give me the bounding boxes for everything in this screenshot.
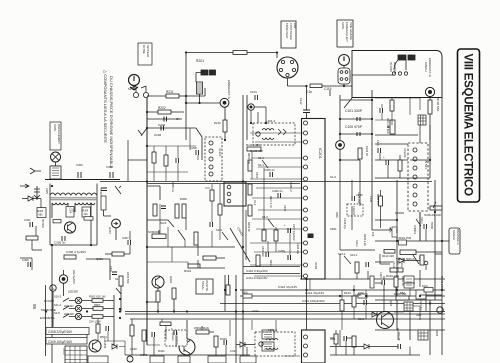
wires above L201 box bbox=[251, 107, 266, 123]
on-line resistor box bus1 bbox=[242, 292, 252, 299]
svg-text:C320: C320 bbox=[130, 347, 137, 351]
resistor R309 vertical bbox=[182, 204, 186, 218]
svg-text:S1-5: S1-5 bbox=[358, 317, 364, 321]
svg-text:C305 3n: C305 3n bbox=[54, 241, 66, 245]
pin stub circle bbox=[424, 261, 428, 270]
wires right bottom mesh bbox=[342, 285, 420, 340]
wires below transformer bbox=[52, 245, 110, 363]
ST-301 component bbox=[99, 188, 106, 210]
svg-text:330K: 330K bbox=[335, 212, 338, 218]
small boxes right bottom bbox=[404, 276, 414, 288]
svg-text:C208: C208 bbox=[190, 146, 197, 150]
wire x128 column bbox=[128, 140, 147, 181]
capacitor C122 bbox=[379, 272, 385, 285]
capacitor C317 bbox=[224, 340, 227, 345]
svg-text:CONT.TUNER: CONT.TUNER bbox=[289, 23, 293, 40]
svg-text:IN 524: IN 524 bbox=[424, 160, 428, 169]
wires mid-left lower mesh bbox=[147, 184, 220, 264]
svg-text:104: 104 bbox=[84, 213, 89, 216]
svg-text:S2: S2 bbox=[128, 87, 132, 91]
wire left drop bbox=[185, 53, 187, 141]
wires bottom band mesh bbox=[98, 279, 310, 356]
left mid column wires bbox=[147, 180, 160, 270]
resistor R913 vertical bbox=[172, 288, 176, 299]
note lamp box left bbox=[50, 122, 61, 150]
resistor R410 vertical bbox=[274, 230, 278, 241]
svg-text:R308: R308 bbox=[180, 197, 187, 201]
wire column mid verticals bbox=[252, 151, 290, 255]
LED306 bbox=[64, 312, 82, 320]
svg-text:LED306: LED306 bbox=[64, 312, 74, 316]
svg-text:C108 47µ: C108 47µ bbox=[343, 218, 346, 229]
svg-text:Q301: Q301 bbox=[96, 257, 103, 261]
svg-text:ST301: ST301 bbox=[99, 188, 103, 196]
wire row 247 bbox=[147, 246, 235, 248]
resistor box R304 bbox=[82, 207, 91, 217]
svg-text:C410 0.33µ/16V: C410 0.33µ/16V bbox=[246, 269, 268, 273]
svg-text:R110 22K: R110 22K bbox=[382, 254, 394, 258]
label box R9L bbox=[392, 227, 397, 237]
svg-text:C122: C122 bbox=[379, 272, 382, 278]
svg-text:CINCH: CINCH bbox=[424, 62, 428, 72]
resistor R320 bbox=[214, 336, 218, 347]
svg-text:R409 1K: R409 1K bbox=[247, 222, 250, 232]
wire rail y160 right bbox=[410, 159, 430, 161]
wire main top horizontal bbox=[186, 52, 278, 54]
resistor R310 bbox=[184, 264, 200, 273]
resistor R168 56K vertical bbox=[428, 98, 440, 114]
mid-right label texture bbox=[335, 196, 372, 247]
svg-text:B52: B52 bbox=[400, 291, 405, 295]
svg-text:C306 4.7µ/25V: C306 4.7µ/25V bbox=[66, 250, 86, 254]
wires right mid mesh bbox=[375, 190, 442, 264]
svg-text:R168 47K: R168 47K bbox=[376, 194, 379, 205]
svg-text:SVR101 10K: SVR101 10K bbox=[424, 213, 441, 217]
svg-text:C104: C104 bbox=[250, 90, 257, 94]
svg-text:C302: C302 bbox=[106, 165, 113, 169]
svg-text:S11-2: S11-2 bbox=[54, 303, 61, 307]
svg-text:DU CHASSIS,PIECE D'ORIGINE IND: DU CHASSIS,PIECE D'ORIGINE INDISPENSABLE bbox=[109, 76, 114, 168]
svg-text:R9 600A: R9 600A bbox=[41, 219, 44, 228]
capacitor C109 bbox=[424, 224, 427, 229]
svg-text:NIVEAU: NIVEAU bbox=[452, 230, 456, 240]
switch S2-8 bbox=[54, 311, 69, 318]
svg-text:C407 10µ/16V: C407 10µ/16V bbox=[292, 224, 296, 241]
svg-text:NOTE: NOTE bbox=[53, 124, 57, 131]
capacitor C310 left bbox=[376, 140, 381, 153]
svg-text:S1-2: S1-2 bbox=[262, 215, 268, 219]
svg-text:680: 680 bbox=[39, 214, 44, 217]
switch S2-5 bbox=[178, 230, 185, 240]
capacitor C307 bbox=[122, 236, 131, 245]
svg-text:S14-1: S14-1 bbox=[420, 217, 423, 224]
resistor R315 vertical bbox=[130, 325, 134, 336]
dashed connector box mid-left bbox=[205, 137, 222, 181]
hatch block right bbox=[418, 115, 426, 125]
small box bottom mid bbox=[150, 356, 164, 363]
svg-text:LOUD: LOUD bbox=[62, 348, 65, 355]
resistor R411 vertical bbox=[256, 255, 260, 266]
resistor R110 22K bbox=[382, 250, 395, 259]
svg-text:C101 330P: C101 330P bbox=[345, 109, 363, 113]
on-line resistor box bus2 bbox=[358, 294, 367, 298]
resistor horizontal mid bbox=[64, 255, 76, 259]
lamp symbol bbox=[51, 152, 61, 162]
switch S2-1 bbox=[138, 128, 147, 136]
IC201 inner mark bbox=[308, 234, 319, 270]
svg-text:S1-5: S1-5 bbox=[388, 227, 392, 233]
wire top bus to R211 bbox=[147, 88, 205, 96]
resistor Rm01 33K bbox=[246, 143, 261, 151]
svg-text:S13-1: S13-1 bbox=[355, 240, 358, 247]
circle small left2 bbox=[50, 285, 56, 291]
svg-text:R106 2.2K: R106 2.2K bbox=[363, 234, 366, 246]
svg-text:R411: R411 bbox=[269, 260, 272, 266]
wire pin rows middle bbox=[250, 133, 303, 276]
svg-text:C404: C404 bbox=[255, 172, 258, 179]
transistor Q201 bbox=[152, 276, 173, 288]
ground bus left bbox=[45, 179, 120, 181]
svg-text:R139: R139 bbox=[435, 330, 438, 337]
small dashed box mid bbox=[347, 204, 363, 216]
left bottom verticals bbox=[46, 270, 115, 356]
wires bottom mesh bbox=[125, 319, 255, 355]
trimmer right bottom bbox=[394, 292, 409, 300]
svg-text:S2-4: S2-4 bbox=[216, 228, 222, 232]
resistor R164 vertical bbox=[340, 300, 344, 311]
svg-text:R607: R607 bbox=[94, 303, 101, 307]
svg-text:C304: C304 bbox=[69, 208, 71, 214]
resistor R307 vertical bbox=[194, 232, 198, 245]
capacitor C112 above IC bbox=[299, 98, 310, 119]
resistor R201 bbox=[196, 51, 247, 64]
right mid vertical bus x372 bbox=[371, 90, 373, 230]
bottom small circle bbox=[127, 356, 133, 362]
svg-text:R310: R310 bbox=[184, 269, 192, 273]
NIVEAU D'ENTREE label box bbox=[449, 228, 460, 254]
note label box (right) bbox=[337, 20, 353, 47]
capacitor C316 bbox=[210, 222, 213, 227]
switch S1-4 bbox=[330, 90, 352, 108]
svg-text:C310 100µF/16V: C310 100µF/16V bbox=[302, 299, 325, 303]
title block VIII ESQUEMA ELECTRICO bbox=[458, 49, 480, 202]
resistor R407 vertical bbox=[248, 205, 252, 216]
SVR301 trimmer bbox=[148, 230, 166, 239]
DIN connector socket bbox=[277, 57, 298, 78]
svg-text:50LB: 50LB bbox=[395, 228, 397, 234]
wire bus B bbox=[240, 289, 445, 291]
svg-text:C411 0.33µ/16V: C411 0.33µ/16V bbox=[246, 276, 268, 280]
svg-text:C106: C106 bbox=[356, 193, 363, 197]
trimmer diagonal top right bbox=[115, 186, 121, 194]
wire C410 row bbox=[243, 267, 300, 274]
capacitor C308 box bbox=[46, 328, 89, 335]
svg-text:FILTRE: FILTRE bbox=[142, 45, 145, 54]
diode D303 bbox=[112, 344, 117, 349]
svg-text:R320: R320 bbox=[220, 337, 227, 341]
left small arrow component bbox=[30, 168, 41, 174]
wire bus C bbox=[240, 295, 445, 297]
wire second vertical x246 bbox=[245, 210, 247, 260]
wires bottom right extra bbox=[375, 270, 426, 320]
svg-text:+: + bbox=[284, 223, 286, 227]
wires mid-left upper mesh bbox=[147, 128, 198, 181]
svg-text:R140 27K: R140 27K bbox=[440, 276, 444, 289]
wire bus E (long pair) bbox=[125, 312, 445, 315]
on-line resistor box bus3 bbox=[422, 285, 433, 292]
resistor R607 bbox=[93, 303, 103, 310]
svg-text:+: + bbox=[383, 155, 385, 159]
capacitor C303 bbox=[76, 163, 83, 178]
diode D102 bbox=[372, 312, 377, 317]
svg-text:C310: C310 bbox=[376, 140, 379, 147]
wires bottom right bbox=[375, 295, 445, 355]
capacitor C107 bbox=[366, 262, 369, 267]
wires mid bottom extra bbox=[330, 330, 352, 355]
cinch record connector box outline bbox=[352, 51, 442, 99]
svg-text:W302 5K(A): W302 5K(A) bbox=[194, 326, 209, 330]
resistor R165 vertical bbox=[352, 296, 356, 307]
svg-text:C416 47µ/16V: C416 47µ/16V bbox=[278, 285, 297, 289]
svg-text:SECTEUR: SECTEUR bbox=[146, 45, 149, 57]
capacitor C208 bbox=[190, 146, 199, 155]
svg-text:R219: R219 bbox=[214, 121, 221, 125]
jack G301 bbox=[108, 219, 120, 234]
svg-text:S3-6: S3-6 bbox=[160, 221, 167, 225]
capacitor C101 bbox=[345, 109, 363, 121]
diode D301 bbox=[22, 196, 41, 201]
wire x340 column bbox=[340, 95, 372, 140]
svg-text:IN CRD: IN CRD bbox=[389, 62, 393, 72]
capacitor C106 bbox=[352, 192, 361, 204]
bus labels bbox=[278, 285, 325, 303]
svg-text:Rm01 33K: Rm01 33K bbox=[250, 149, 263, 153]
right area wires bbox=[375, 180, 442, 330]
IC201 pins bbox=[304, 121, 308, 278]
svg-text:C309 100µF/16V: C309 100µF/16V bbox=[48, 340, 73, 344]
speaker connector dashed box right bbox=[408, 143, 428, 211]
svg-text:324 1/2W: 324 1/2W bbox=[89, 320, 101, 324]
wire DIN drop to IC bbox=[306, 86, 308, 106]
svg-text:LED308: LED308 bbox=[68, 290, 78, 294]
svg-text:S1-2: S1-2 bbox=[253, 200, 256, 206]
VR101 pot bbox=[396, 250, 416, 261]
resistor R311 horizontal bbox=[112, 252, 124, 256]
left connector pins top bbox=[130, 86, 149, 98]
switch S1-1 bbox=[258, 156, 268, 168]
electrolytic C319 bbox=[171, 326, 177, 335]
wire into jack bbox=[340, 149, 360, 180]
svg-text:G301: G301 bbox=[108, 227, 112, 234]
wires G301 bbox=[104, 210, 117, 240]
capacitor C309a bbox=[22, 258, 31, 267]
svg-text:R131: R131 bbox=[400, 261, 403, 267]
capacitor C309 box bbox=[46, 338, 87, 345]
svg-text:+: + bbox=[171, 326, 173, 330]
bottom right small circle bbox=[437, 307, 443, 313]
resistor R103 vertical bbox=[358, 146, 369, 159]
capacitor C201 bbox=[158, 117, 167, 128]
jack circle above L201 box bbox=[248, 104, 254, 110]
capacitor C406 bbox=[272, 189, 283, 198]
volume pot right bbox=[386, 118, 395, 134]
wires mid bbox=[224, 107, 226, 140]
svg-text:C209: C209 bbox=[278, 249, 285, 253]
svg-text:C112: C112 bbox=[299, 98, 303, 105]
svg-text:VIII ESQUEMA ELECTRICO: VIII ESQUEMA ELECTRICO bbox=[462, 54, 474, 197]
bottom small box row1 bbox=[208, 356, 226, 363]
switch S2-4 bbox=[216, 228, 228, 240]
wires left column bbox=[20, 199, 42, 271]
wire NIVEAU row bbox=[375, 240, 450, 242]
resistor horizontal left of Q301 bbox=[41, 219, 61, 228]
svg-text:D'EFFACEMENT: D'EFFACEMENT bbox=[57, 124, 61, 144]
diode stack far left bbox=[34, 186, 40, 200]
diode D302 bbox=[240, 342, 245, 347]
resistor R211 bbox=[166, 90, 179, 98]
wire DIN to box bbox=[277, 53, 306, 87]
resistor R950 vertical bbox=[226, 285, 230, 295]
svg-text:S1-1: S1-1 bbox=[258, 156, 264, 160]
hatch block right bottom bbox=[404, 302, 413, 311]
svg-text:C301: C301 bbox=[24, 218, 31, 222]
coil vertical (mains) bbox=[197, 82, 203, 103]
svg-text:S13-1: S13-1 bbox=[350, 253, 358, 257]
svg-text:C308 220µF/16V: C308 220µF/16V bbox=[48, 330, 73, 334]
capacitor C301 bbox=[24, 218, 33, 227]
switch S3-6 bbox=[160, 220, 174, 227]
bottom right diode D103 bbox=[364, 344, 369, 349]
capacitor C314 bbox=[101, 188, 107, 191]
lamp leads bbox=[51, 162, 60, 166]
note label box (tuner) bbox=[281, 21, 297, 48]
svg-text:W302: W302 bbox=[140, 353, 148, 357]
resistor R306 vertical bbox=[153, 204, 157, 216]
svg-text:R503 56K: R503 56K bbox=[126, 272, 130, 284]
svg-text:C119: C119 bbox=[324, 87, 332, 91]
resistor R301 bbox=[26, 236, 38, 240]
capacitor C202 bbox=[154, 126, 164, 138]
svg-text:PRISE PEUT: PRISE PEUT bbox=[285, 23, 289, 39]
svg-text:10K: 10K bbox=[371, 232, 374, 237]
resistor box R303 bbox=[37, 208, 46, 218]
svg-text:NOTE: NOTE bbox=[341, 22, 345, 29]
dashed coil box L201 bbox=[253, 119, 295, 145]
svg-text:D'SORTIE: D'SORTIE bbox=[205, 280, 208, 291]
svg-text:A-C1815: A-C1815 bbox=[103, 338, 107, 349]
wire bus A bbox=[300, 278, 445, 280]
svg-text:VOLUM: VOLUM bbox=[403, 148, 407, 157]
svg-text:S1-1: S1-1 bbox=[258, 163, 264, 167]
svg-text:C307: C307 bbox=[122, 236, 129, 240]
wire rail y181 bbox=[100, 181, 432, 183]
resistor R605 bbox=[89, 315, 103, 324]
resistor R215 vertical bbox=[152, 152, 156, 163]
svg-text:2.2n: 2.2n bbox=[306, 90, 312, 94]
svg-text:R211: R211 bbox=[166, 90, 174, 94]
resistor W301 bbox=[203, 256, 216, 260]
capacitor C120 bbox=[364, 300, 367, 305]
wire rail y183.5 bbox=[147, 183, 300, 185]
svg-text:C321: C321 bbox=[230, 349, 237, 353]
svg-text:C406: C406 bbox=[283, 205, 286, 212]
wire into record box bbox=[322, 66, 352, 86]
resistor R406 vertical bbox=[248, 184, 252, 195]
wires bottom mid bbox=[147, 275, 307, 363]
wires upper cluster bbox=[147, 96, 220, 128]
capacitor C209 bbox=[176, 158, 179, 163]
label stack LOUD/ARU bbox=[392, 261, 403, 273]
svg-text:R103 1K: R103 1K bbox=[365, 146, 369, 156]
svg-text:C406 2n: C406 2n bbox=[272, 189, 283, 193]
resistor R405 vertical bbox=[248, 160, 252, 171]
svg-text:32Ω: 32Ω bbox=[330, 337, 335, 341]
svg-text:R407 4.7K: R407 4.7K bbox=[269, 196, 272, 208]
svg-text:S2-8: S2-8 bbox=[54, 311, 60, 315]
label box C304 bbox=[66, 207, 74, 218]
wire right column verticals bbox=[340, 160, 397, 250]
svg-text:HON2: HON2 bbox=[430, 222, 433, 230]
note label box top-left bbox=[138, 43, 152, 65]
svg-text:VOIE GAUCHE: VOIE GAUCHE bbox=[349, 22, 353, 40]
svg-text:LED307: LED307 bbox=[64, 304, 74, 308]
resistor near C119 bbox=[306, 84, 332, 94]
bottom small box row3 bbox=[88, 356, 108, 363]
capacitor block below power symbol bbox=[338, 68, 350, 84]
resistor R409 vertical bbox=[262, 230, 266, 241]
svg-text:ENREGIS.(LECT: ENREGIS.(LECT bbox=[345, 22, 349, 42]
cinch connector internals bbox=[389, 55, 432, 78]
svg-text:R164: R164 bbox=[344, 291, 351, 295]
transformer T301 bbox=[45, 184, 97, 246]
svg-text:330K: 330K bbox=[330, 227, 337, 231]
svg-text:CREDIT: CREDIT bbox=[352, 206, 355, 215]
LED308 bbox=[68, 290, 82, 304]
svg-text:R405 10K: R405 10K bbox=[247, 153, 250, 164]
transistor Q301 bbox=[64, 222, 75, 233]
svg-text:C310: C310 bbox=[109, 266, 112, 273]
switch matrix box bottom left bbox=[62, 346, 87, 363]
svg-text:△ COMPOSANTS LIES A LA SECURIT: △ COMPOSANTS LIES A LA SECURITE bbox=[103, 70, 108, 143]
resistor horizontal right of Q301 bbox=[84, 217, 93, 220]
cinch diagonal label bbox=[230, 227, 250, 263]
svg-text:AUX: AUX bbox=[293, 23, 297, 29]
node jack circle right bbox=[425, 87, 434, 96]
switch S1-3 right of leds bbox=[115, 277, 121, 294]
middle column rotated label texture bbox=[247, 153, 299, 266]
resistor R308 vertical bbox=[175, 204, 179, 218]
mid vertical bus x243 bbox=[243, 95, 247, 363]
bias coil box bbox=[50, 166, 61, 179]
wire bus D bbox=[220, 303, 445, 305]
IC301 box bottom bbox=[302, 330, 326, 363]
svg-text:VR101 POR: VR101 POR bbox=[398, 237, 411, 240]
fuse block component bbox=[196, 70, 216, 82]
svg-text:R141 1K: R141 1K bbox=[401, 276, 404, 286]
resistor R105 bbox=[355, 262, 359, 273]
resistor R141 vertical bbox=[394, 276, 404, 287]
hatch box far bottom right bbox=[418, 330, 428, 340]
wires top right mesh bbox=[375, 98, 420, 125]
resistor R151 bbox=[398, 160, 402, 171]
svg-text:ARU 100n: ARU 100n bbox=[396, 261, 399, 273]
switch S1-5 right bbox=[388, 227, 397, 237]
svg-text:32Ω: 32Ω bbox=[416, 313, 421, 317]
wires mid-left bbox=[105, 218, 225, 268]
capacitor C100 bbox=[345, 125, 363, 136]
switch right diag bbox=[196, 128, 202, 160]
diode D101 bbox=[399, 258, 404, 263]
